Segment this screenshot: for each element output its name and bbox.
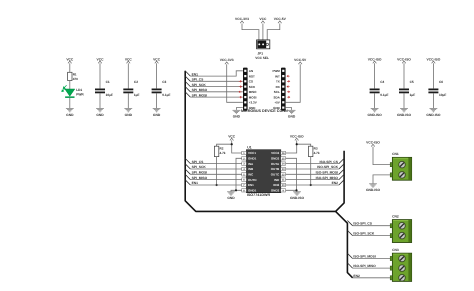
wire SPI_SCK to U1 (190, 168, 241, 170)
wire SPI_MOSI to U1 (190, 173, 241, 175)
connector CN3 (390, 248, 411, 282)
wire VCC-3V3 to +3.3V pin (227, 64, 243, 102)
capacitor C5 (399, 63, 415, 108)
bus entry SPI_SCK (U1 input) (185, 164, 190, 169)
svg-text:GND: GND (233, 115, 241, 119)
wire mikroBUS left GND (236, 108, 242, 110)
wire VCC branch to R2 (217, 144, 232, 146)
pin direction mark (right header row y=86.6) (287, 86, 290, 88)
junction R2-EN1 (216, 184, 218, 186)
wire SPI_MISO to U1 (190, 179, 241, 181)
power flag VCC-5V (JP1) (274, 17, 287, 23)
wire ISO-SPI_CS to terminal (353, 225, 391, 227)
svg-text:ISO-SPI_CS: ISO-SPI_CS (319, 160, 338, 164)
svg-text:VCC-ISO: VCC-ISO (366, 141, 380, 145)
power flag VCC-3V3 (JP1) (235, 17, 249, 23)
svg-text:VCC: VCC (259, 17, 267, 21)
ground GND-ISO (U1 side 2) (290, 192, 305, 200)
bus entry EN1 (U1 input) (185, 180, 190, 185)
connector CN1 (390, 152, 411, 180)
wire VCC to JP1 pin2 (262, 24, 264, 40)
svg-text:OUTC: OUTC (271, 172, 280, 176)
wire ISO-SPI_MISO from U1 (286, 179, 339, 181)
svg-text:RST: RST (249, 74, 255, 78)
power flag VCC-5V (mikroBUS) (294, 58, 307, 64)
svg-text:EN1: EN1 (248, 183, 254, 187)
svg-text:1µF: 1µF (410, 93, 416, 97)
bus entry SPI_MOSI (mikroBUS) (185, 92, 190, 97)
connector mikroBUS left header (AN..GND) (243, 68, 257, 111)
svg-text:EN2: EN2 (332, 181, 339, 185)
capacitor C4 (370, 63, 389, 108)
svg-text:PWR: PWR (76, 93, 84, 97)
wire VCC-5V to JP1 pin3 (267, 24, 280, 40)
svg-text:INB: INB (248, 167, 254, 171)
pin direction mark (left header row y=81.3) (239, 81, 242, 83)
svg-text:SPI_MISO: SPI_MISO (192, 88, 208, 92)
ground GND-ISO (C4 column) (368, 109, 383, 117)
power flag VCC-ISO (U1 side 2) (290, 134, 304, 140)
svg-text:MISO: MISO (249, 90, 257, 94)
power flag VCC-ISO (CN1) (366, 141, 380, 147)
svg-text:VCC-ISO: VCC-ISO (427, 57, 441, 61)
ground GND (C3 column) (153, 109, 161, 117)
svg-text:C4: C4 (380, 80, 384, 84)
bus entry SPI_MISO (mikroBUS) (185, 87, 190, 92)
wire VCC-ISO to U1 VCC2 (286, 140, 297, 153)
power flag VCC (U1 side 1) (228, 134, 236, 140)
svg-text:ISO7741DWR: ISO7741DWR (247, 193, 271, 197)
ground GND-ISO (C5 column) (397, 109, 412, 117)
svg-text:10µF: 10µF (439, 93, 446, 97)
svg-text:VCC-ISO: VCC-ISO (368, 57, 382, 61)
wire EN2 to terminal (353, 277, 391, 279)
svg-text:SPI_SCK: SPI_SCK (192, 83, 207, 87)
power flag VCC-ISO (C5 column) (397, 57, 411, 63)
svg-text:CN1: CN1 (392, 152, 399, 156)
power flag VCC (C2 column) (125, 57, 133, 63)
svg-text:SPI_MISO: SPI_MISO (192, 176, 208, 180)
svg-text:ISO-SPI_CS: ISO-SPI_CS (353, 222, 372, 226)
wire R2 to EN1 net (216, 157, 218, 185)
pin direction mark (right header row y=81.3) (287, 81, 290, 83)
svg-text:VCC-ISO: VCC-ISO (397, 57, 411, 61)
ground GND (U1 side 1) (227, 192, 235, 200)
power flag VCC-ISO (C4 column) (368, 57, 382, 63)
svg-text:INC: INC (248, 172, 254, 176)
svg-text:ISO-SPI_SCK: ISO-SPI_SCK (353, 232, 375, 236)
wire R3 to EN2 net (310, 157, 312, 185)
bus entry EN2 (U1 output) (339, 180, 344, 185)
capacitor C1 (95, 63, 113, 108)
junction VCC/R2 branch (231, 143, 233, 145)
bus entry ISO-SPI_MISO (terminal side) (347, 263, 352, 268)
svg-text:GND-ISO: GND-ISO (366, 188, 381, 192)
svg-text:VCC2: VCC2 (271, 151, 279, 155)
svg-text:MIKROBUS DEVICE CONN: MIKROBUS DEVICE CONN (241, 109, 288, 113)
power flag VCC (C3 column) (153, 57, 161, 63)
bus entry ISO-SPI_SCK (terminal side) (347, 230, 352, 235)
svg-text:EN1: EN1 (192, 181, 199, 185)
svg-text:C1: C1 (106, 80, 110, 84)
svg-text:VCC-5V: VCC-5V (274, 17, 287, 21)
ground GND (C1 column) (96, 109, 104, 117)
resistor R3 (309, 146, 320, 156)
svg-text:GND: GND (227, 196, 235, 200)
bus entry ISO-SPI_SCK (U1 output) (339, 164, 344, 169)
svg-text:OUTD: OUTD (248, 178, 257, 182)
ground GND-ISO (C6 column) (426, 109, 441, 117)
svg-text:U1: U1 (247, 145, 251, 149)
svg-text:GND-ISO: GND-ISO (426, 113, 441, 117)
svg-text:TX: TX (276, 80, 280, 84)
IC U1 ISO7741DWR digital isolator (242, 145, 286, 197)
bus entry SPI_CS (U1 input) (185, 158, 190, 163)
capacitor C2 (123, 63, 139, 108)
wire VCC-3V3 to JP1 pin1 (242, 24, 259, 40)
power flag VCC (JP1) (259, 17, 267, 23)
svg-text:0.1µF: 0.1µF (380, 93, 388, 97)
connector mikroBUS right header (PWM..GND) (272, 68, 285, 111)
svg-text:GND: GND (96, 113, 104, 117)
svg-text:C3: C3 (162, 80, 166, 84)
power flag VCC (LED column) (66, 57, 74, 63)
svg-text:AN: AN (249, 69, 253, 73)
svg-text:ISO-SPI_MISO: ISO-SPI_MISO (353, 264, 376, 268)
svg-text:IND: IND (274, 178, 280, 182)
ground GND (C2 column) (124, 109, 132, 117)
svg-text:GND2: GND2 (271, 188, 280, 192)
bus entry ISO-SPI_MOSI (terminal side) (347, 253, 352, 258)
wire R1 to LD1 (69, 81, 71, 89)
wire EN1 to U1 (190, 184, 241, 186)
resistor R2 (214, 146, 225, 156)
svg-text:1µF: 1µF (134, 93, 140, 97)
svg-text:ISO-SPI_SCK: ISO-SPI_SCK (317, 165, 339, 169)
wire ISO-SPI_SCK from U1 (286, 168, 339, 170)
bus entry SPI_CS (mikroBUS) (185, 76, 190, 81)
bus entry ISO-SPI_MOSI (U1 output) (339, 169, 344, 174)
wire VCC to R1 (69, 63, 71, 72)
svg-text:LD1: LD1 (76, 88, 82, 92)
svg-text:C2: C2 (134, 80, 138, 84)
jumper JP1 VCC SEL (255, 40, 270, 60)
svg-text:OUTB: OUTB (271, 167, 280, 171)
bus entry EN1 (mikroBUS) (185, 71, 190, 76)
svg-text:+5V: +5V (274, 101, 279, 105)
pin direction mark (left header row y=97.1) (239, 96, 242, 98)
svg-text:0.1µF: 0.1µF (162, 93, 170, 97)
svg-text:GND: GND (288, 115, 296, 119)
svg-text:GND2: GND2 (271, 156, 280, 160)
pin direction mark (right header row y=76.1) (287, 75, 290, 77)
svg-text:C5: C5 (410, 80, 414, 84)
ground GND (LED column) (66, 109, 74, 117)
bus entry ISO-SPI_CS (U1 output) (339, 158, 344, 163)
ground GND (mikroBUS left) (233, 110, 241, 118)
svg-text:C6: C6 (439, 80, 443, 84)
svg-text:VCC1: VCC1 (248, 151, 256, 155)
wire EN2 from U1 (286, 184, 339, 186)
svg-text:SCK: SCK (249, 85, 256, 89)
svg-text:GND: GND (153, 113, 161, 117)
svg-text:SPI_SCK: SPI_SCK (192, 165, 207, 169)
svg-text:VCC: VCC (66, 57, 74, 61)
wire VCC-ISO to CN1 pin1 (373, 147, 390, 165)
wire EN1 to mikroBUS AN pin (190, 71, 242, 76)
svg-text:GND-ISO: GND-ISO (368, 113, 383, 117)
svg-text:VCC-ISO: VCC-ISO (290, 134, 304, 138)
svg-text:PWM: PWM (272, 69, 280, 73)
wire ISO-SPI_MOSI from U1 (286, 173, 339, 175)
capacitor C3 (152, 63, 171, 108)
bus entry ISO-SPI_MISO (U1 output) (339, 174, 344, 179)
ground GND-ISO (CN1) (366, 184, 381, 192)
pin direction mark (right header row y=91.8) (287, 91, 290, 93)
bus (lower right to terminal headers) (336, 211, 353, 277)
svg-text:CN3: CN3 (392, 248, 399, 252)
svg-text:10µF: 10µF (106, 93, 113, 97)
pin direction mark (left header row y=91.8) (239, 91, 242, 93)
svg-text:SCL: SCL (274, 90, 280, 94)
svg-text:GND: GND (66, 113, 74, 117)
power flag VCC (C1 column) (97, 57, 105, 63)
svg-text:MOSI: MOSI (249, 95, 257, 99)
ground GND (mikroBUS right) (288, 110, 296, 118)
svg-text:GND-ISO: GND-ISO (290, 196, 305, 200)
wire U1 GND1 pin2 link (236, 158, 242, 190)
svg-text:GND-ISO: GND-ISO (397, 113, 412, 117)
svg-text:+3.3V: +3.3V (249, 101, 257, 105)
wire U1 GND2 pin15 link (286, 158, 297, 190)
svg-text:GND: GND (125, 113, 133, 117)
bus entry SPI_SCK (mikroBUS) (185, 81, 190, 86)
wire VCC to U1 VCC1 (232, 140, 242, 153)
junction R3-EN2 (310, 184, 312, 186)
svg-text:VCC-5V: VCC-5V (294, 58, 307, 62)
svg-text:CN2: CN2 (392, 214, 399, 218)
power flag VCC-3V3 (mikroBUS) (220, 58, 234, 64)
bus entry SPI_MISO (U1 input) (185, 174, 190, 179)
svg-text:EN1: EN1 (192, 72, 199, 76)
svg-text:EN2: EN2 (273, 183, 279, 187)
svg-text:SPI_MOSI: SPI_MOSI (192, 171, 208, 175)
svg-text:VCC: VCC (153, 57, 161, 61)
svg-text:ISO-SPI_MOSI: ISO-SPI_MOSI (353, 255, 375, 259)
svg-text:INT: INT (275, 74, 280, 78)
connector CN2 (390, 214, 411, 242)
wire ISO-SPI_SCK to terminal (353, 235, 391, 237)
svg-text:RX: RX (276, 85, 280, 89)
pin direction mark (left header row y=86.6) (239, 86, 242, 88)
wire ISO-SPI_MOSI to terminal (353, 258, 391, 260)
svg-text:VCC-3V3: VCC-3V3 (235, 17, 249, 21)
svg-text:VCC: VCC (97, 57, 105, 61)
svg-text:4.7k: 4.7k (314, 151, 320, 155)
pin direction mark (right header row y=97.1) (287, 96, 290, 98)
bus (left vertical, bottom horizontal) (185, 71, 344, 212)
wire U1 GND1 pin8 to GND (231, 190, 242, 191)
svg-text:4.7k: 4.7k (220, 151, 226, 155)
svg-text:470: 470 (73, 77, 78, 81)
power flag VCC-ISO (C6 column) (427, 57, 441, 63)
wire ISO-SPI_CS from U1 (286, 163, 339, 165)
junction VCC-ISO/R3 branch (296, 143, 298, 145)
svg-text:ISO-SPI_MOSI: ISO-SPI_MOSI (316, 171, 338, 175)
svg-text:SPI_MOSI: SPI_MOSI (192, 93, 208, 97)
svg-text:EN2: EN2 (353, 274, 360, 278)
wire U1 GND2 pin9 to GND-ISO (286, 190, 297, 191)
wire SPI_MOSI to mikroBUS (190, 96, 242, 98)
wire mikroBUS right GND (286, 108, 292, 110)
svg-text:ISO-SPI_MISO: ISO-SPI_MISO (316, 176, 339, 180)
led LD1 PWR (62, 85, 85, 98)
wire LD1 to GND (69, 98, 71, 108)
svg-text:SPI_CS: SPI_CS (192, 160, 205, 164)
wire SPI_MISO to mikroBUS (190, 91, 242, 93)
svg-text:VCC SEL: VCC SEL (255, 56, 269, 60)
junction GND2 link (295, 189, 297, 191)
junction GND1 link (235, 189, 237, 191)
wire SPI_CS to U1 (190, 163, 241, 165)
wire +5V pin to VCC-5V (286, 64, 300, 102)
wire VCC-ISO branch to R3 (297, 144, 311, 146)
svg-text:INA: INA (248, 162, 254, 166)
svg-text:VCC-3V3: VCC-3V3 (220, 58, 234, 62)
wire ISO-SPI_MISO to terminal (353, 267, 391, 269)
svg-text:SPI_CS: SPI_CS (192, 78, 205, 82)
wire SPI_SCK to mikroBUS (190, 86, 242, 88)
bus entry SPI_MOSI (U1 input) (185, 169, 190, 174)
svg-text:JP1: JP1 (257, 51, 263, 55)
svg-text:GND1: GND1 (248, 156, 257, 160)
svg-text:GND1: GND1 (248, 188, 257, 192)
wire SPI_CS to mikroBUS (190, 80, 242, 82)
resistor R1 (68, 72, 79, 81)
bus entry ISO-SPI_CS (terminal side) (347, 221, 352, 226)
svg-text:SDA: SDA (273, 95, 280, 99)
wire CN1 pin2 to GND-ISO (373, 175, 390, 184)
svg-text:CS: CS (249, 80, 253, 84)
svg-text:VCC: VCC (125, 57, 133, 61)
capacitor C6 (428, 63, 446, 108)
svg-text:OUTA: OUTA (271, 162, 280, 166)
svg-text:VCC: VCC (228, 134, 236, 138)
